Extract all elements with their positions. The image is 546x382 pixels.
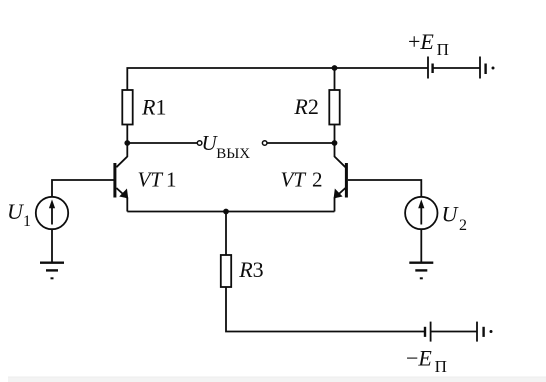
svg-text:VT1: VT1 [138,167,177,191]
source U2 [405,197,467,234]
wire VT2 base [348,180,421,197]
source U1 [7,197,68,230]
battery -Ep [425,322,493,342]
svg-text:R3: R3 [238,257,263,282]
wire R3 bottom rail [226,287,425,332]
transistor VT2 [281,163,348,198]
wire U2 to ground [420,229,422,262]
wire R1 bottom to output rail [126,125,128,144]
wire R2 bottom [334,125,336,144]
svg-text:R1: R1 [141,94,166,119]
resistor R1 [122,90,166,125]
wire top rail [127,68,428,90]
ground under U2 [409,263,433,279]
svg-text:VT2: VT2 [281,167,323,191]
ground under U1 [40,263,64,279]
wire emitter rail [127,211,334,213]
battery +Ep [428,57,495,79]
wire output right [267,142,335,144]
wire R2 top [334,68,336,90]
node junction output left [124,140,130,146]
svg-text:−EП: −EП [406,346,447,377]
svg-text:ВЫХ: ВЫХ [216,146,250,162]
wire VT1 emitter [116,188,127,212]
wire output left [127,142,197,144]
node junction top rail [332,65,338,71]
wire battery bottom mid [431,331,477,333]
svg-text:+EП: +EП [408,29,449,59]
wire VT2 emitter [335,188,346,212]
svg-text:U: U [442,202,460,227]
svg-text:R2: R2 [293,94,318,119]
wire R3 top [225,212,227,256]
node junction emitter rail / R3 [223,209,229,215]
wire VT1 base [52,180,114,197]
node output terminal left [197,141,202,146]
wire U1 to ground [51,229,53,262]
node junction output right [332,140,338,146]
resistor R2 [293,90,339,125]
svg-text:1: 1 [23,213,31,230]
wire battery top mid [433,67,480,69]
svg-text:2: 2 [459,217,467,234]
wire VT2 collector [335,143,346,167]
bottom strip [8,377,546,382]
transistor VT1 [113,163,176,198]
node output terminal right [262,141,267,146]
wire VT1 collector [116,143,127,167]
resistor R3 [221,255,264,287]
